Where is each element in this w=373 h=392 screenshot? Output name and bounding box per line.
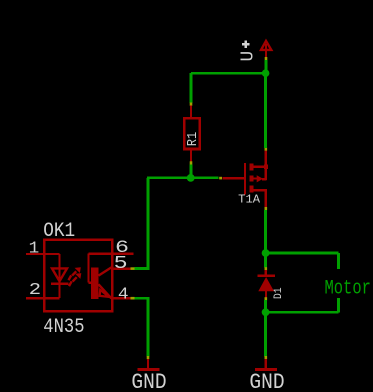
wire left vertical to pin5 [147, 178, 150, 269]
wire supply to node [265, 60, 268, 73]
opto phototransistor base lead [88, 254, 112, 283]
wire drain up [264, 73, 267, 148]
wire top horizontal to R1 [191, 72, 266, 75]
photon arrow 1 [69, 267, 81, 280]
wire to GND right [264, 312, 267, 356]
opto phototransistor base bar [91, 268, 99, 299]
opto phototransistor collector [99, 267, 112, 275]
node motor top junction [262, 249, 270, 257]
pin joint (R1 bottom) [190, 161, 193, 164]
svg-text:U: U [238, 51, 258, 62]
svg-text:1: 1 [29, 239, 40, 258]
pin joint (R1 top) [190, 103, 193, 106]
opto LED cathode bar [51, 283, 69, 286]
ground (right) [255, 359, 277, 371]
wire left vertical to GND [147, 298, 150, 356]
opto LED diode [52, 268, 67, 281]
opto phototransistor emitter [99, 284, 112, 298]
pin joint (diode cathode) [265, 267, 268, 270]
svg-text:5: 5 [114, 253, 128, 275]
wire node to diode [264, 253, 267, 268]
wire diode to motor bottom node [264, 300, 267, 312]
wire source down [264, 210, 267, 253]
wire R1 to gate node [190, 165, 193, 178]
optocoupler OK1 box [44, 240, 112, 311]
pin joint (diode anode) [265, 297, 268, 300]
node motor bottom junction [262, 308, 270, 316]
pin joint (gnd left) [147, 356, 150, 359]
wire motor top [266, 253, 339, 269]
ground (left) [138, 359, 160, 371]
pin 6 [112, 252, 133, 254]
opto LED anode lead [44, 254, 59, 284]
svg-text:4: 4 [118, 284, 129, 303]
pin 5 [112, 267, 131, 269]
pin 2 [26, 297, 44, 299]
pin joint (pin4) [131, 297, 135, 300]
wire pin4 horizontal [135, 297, 150, 300]
svg-text:Motor: Motor [325, 277, 371, 300]
wire gate horizontal [147, 176, 219, 179]
pin 1 [26, 253, 44, 255]
photon arrow 2 [69, 273, 81, 286]
pin joint (gnd right) [265, 356, 268, 359]
svg-text:R1: R1 [184, 132, 200, 147]
svg-text:T1A: T1A [238, 193, 261, 207]
label U+ [242, 41, 249, 48]
pin joint (gate) [219, 177, 222, 180]
pin joint (drain) [265, 147, 268, 150]
wire down to R1 [190, 73, 193, 103]
resistor R1 [184, 106, 199, 163]
wire pin5 horizontal [135, 267, 150, 270]
svg-text:GND: GND [249, 371, 284, 392]
svg-text:4N35: 4N35 [43, 314, 84, 338]
pin 4 [112, 297, 131, 299]
pin joint (supply) [265, 57, 268, 60]
supply symbol U+ arrow [261, 41, 271, 58]
node gate junction [187, 174, 195, 182]
transistor T1A (n-mosfet) [222, 150, 268, 207]
svg-text:D1: D1 [273, 287, 286, 299]
opto LED cathode lead [44, 285, 59, 298]
svg-text:2: 2 [29, 280, 41, 299]
pin joint (source) [265, 207, 268, 210]
diode D1 [258, 270, 275, 298]
svg-text:GND: GND [131, 371, 166, 392]
pin joint (pin5) [131, 267, 135, 270]
wire motor bottom [266, 298, 339, 312]
node V+ junction [262, 69, 270, 77]
svg-text:OK1: OK1 [43, 219, 75, 243]
